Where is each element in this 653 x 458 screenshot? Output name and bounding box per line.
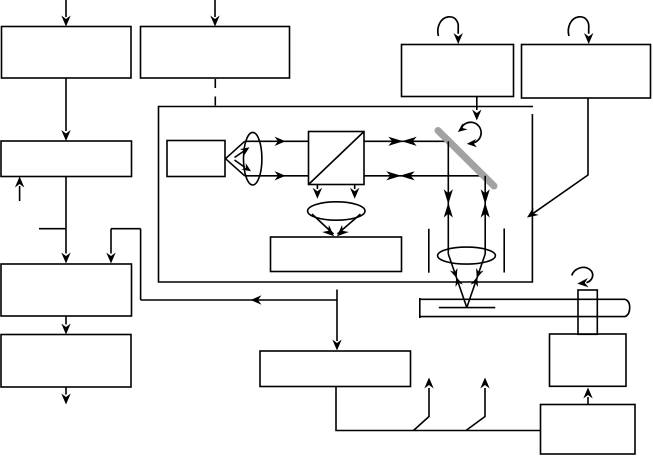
objective lens aperture bar right bbox=[503, 229, 505, 273]
box B1 (top-left) bbox=[2, 27, 132, 79]
beam splitter cube bbox=[309, 132, 365, 185]
spindle shaft bbox=[578, 290, 597, 334]
wire: feedback line to the left with mid arrow bbox=[141, 295, 337, 304]
box B8 (motor driver) bbox=[541, 405, 636, 455]
wire: arrow from B3 down to mirror bbox=[472, 97, 481, 121]
track line on disk bbox=[439, 307, 496, 309]
box B2 (top, second) bbox=[141, 27, 290, 79]
wire: vertical beam mirror to objective (right) with bowtie bbox=[481, 176, 490, 254]
wire: stub tick on vertical line bbox=[39, 228, 66, 230]
wire: arrows from beamsplitter down to focusing lens bbox=[313, 185, 322, 199]
box B-left2 (driver) bbox=[1, 141, 132, 177]
ray arrow down-right inside cone bbox=[235, 160, 254, 174]
wire: converging rays to photodetector bbox=[312, 214, 361, 240]
wire: bottom beam line beamsplitter to mirror with bowtie arrows bbox=[364, 171, 481, 180]
mirror rotation arc bbox=[455, 122, 481, 148]
wire: signal line down into box B7 with arrow bbox=[332, 290, 341, 351]
spindle rotation curl arrow bbox=[572, 267, 593, 288]
wire: dashed link from B2 to optical head enclosure bbox=[214, 79, 216, 106]
wire: from B7 down and right to B8 bbox=[336, 387, 541, 431]
wire: top beam line lens to beamsplitter with right arrow bbox=[245, 137, 309, 146]
wire: small up arrow into bottom of B-left2 bbox=[15, 177, 24, 202]
box B5 bbox=[1, 264, 132, 316]
wire: output arrow from B6 bbox=[61, 387, 70, 405]
wire: branch arrow 1 up from bus bbox=[414, 378, 434, 431]
wire: input arrow into box B1 bbox=[61, 0, 70, 27]
galvano mirror (thick gray) bbox=[438, 131, 494, 187]
wire: top beam line beamsplitter to mirror with bowtie arrows bbox=[364, 137, 447, 146]
wire: arrow from B4 down-left into enclosure bbox=[524, 98, 588, 221]
box B4 (actuator driver) bbox=[522, 45, 651, 99]
collimating lens (ellipse) bbox=[244, 132, 262, 185]
objective lens aperture bar left bbox=[428, 229, 430, 273]
disk / sample arm bbox=[420, 298, 630, 318]
wire: input arrow into box B2 bbox=[210, 0, 219, 27]
photodetector box bbox=[271, 237, 402, 272]
wire: arrow B1 to B-left2 bbox=[61, 78, 70, 141]
wire: vertical beam mirror to objective (left) with bowtie bbox=[444, 141, 453, 254]
laser diode box bbox=[167, 141, 225, 177]
wire: bottom beam line lens to beamsplitter with right arrow bbox=[245, 171, 309, 180]
objective lens (ellipse) bbox=[438, 247, 496, 264]
wire: arrow B8 up to motor bbox=[583, 388, 592, 405]
optical head enclosure box bbox=[159, 107, 534, 283]
rotation curl arrow above box B3 bbox=[438, 17, 463, 44]
ray arrow up-right inside cone bbox=[235, 144, 252, 157]
motor box bbox=[550, 334, 627, 386]
focusing lens (ellipse) bbox=[308, 202, 365, 220]
box B6 bbox=[1, 335, 131, 388]
wire: converging rays to disk focus point bbox=[448, 254, 485, 308]
wire: feedback line from junction to B5 (up-over-down) bbox=[106, 229, 140, 300]
wire: arrow B5 to B6 bbox=[61, 316, 70, 335]
wire: arrow B-left2 down to box B5 bbox=[61, 177, 70, 264]
rotation curl arrow above box B4 bbox=[568, 17, 593, 44]
box B3 (mirror driver) bbox=[402, 45, 514, 97]
laser divergence cone bbox=[226, 141, 245, 176]
wire: branch arrow 2 up from bus bbox=[466, 378, 490, 431]
box B7 (signal processor) bbox=[260, 351, 411, 387]
